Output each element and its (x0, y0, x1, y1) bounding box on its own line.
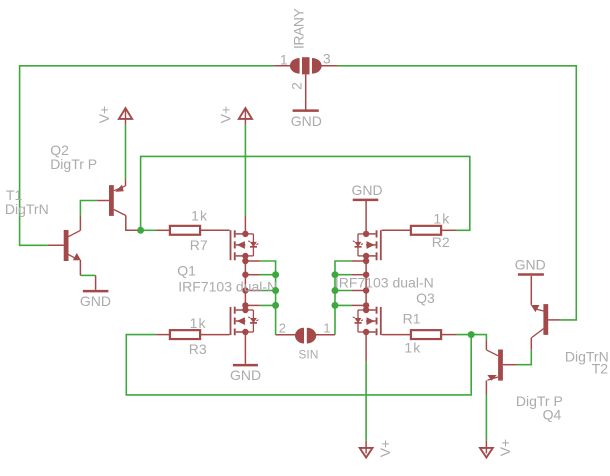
svg-text:R1: R1 (403, 311, 421, 327)
Q1 pin stub y=290.5 (245, 290, 260, 292)
junction nodes on Q3 bus (332, 271, 339, 278)
svg-text:IRF7103 dual-N: IRF7103 dual-N (178, 278, 277, 294)
transistor Q4 DigTr P (486, 340, 516, 394)
svg-text:R2: R2 (432, 234, 450, 250)
Q3 source lead to V+ (365, 332, 367, 362)
svg-text:V+: V+ (377, 440, 393, 458)
wire Q3 bus link y=290.5 (335, 290, 351, 292)
svg-text:V+: V+ (497, 439, 513, 457)
svg-text:Q1: Q1 (177, 262, 196, 278)
svg-text:1: 1 (280, 52, 288, 68)
svg-text:GND: GND (515, 256, 546, 272)
transistor T1 DigTrN (48, 216, 81, 276)
wire T2 collector to Q4 base (517, 350, 532, 365)
Q3 inter-FET pin column (365, 256, 367, 310)
wire T1 collector to Q2 base (80, 201, 97, 216)
Q3 pin stub y=290.5 (351, 290, 366, 292)
wire Q1 bus link y=274.7 (260, 274, 276, 276)
wire V+ arrow to Q2 emitter (125, 125, 127, 180)
wire net IRANY-3 to T2 base (top-right loop) (338, 66, 577, 320)
svg-text:V+: V+ (217, 106, 233, 124)
wire net IRANY-1 to T1 base (top-left loop) (20, 66, 274, 246)
Q3 pin stub y=261 (351, 260, 366, 262)
svg-text:2: 2 (289, 82, 305, 90)
Q1 source lead to GND (244, 332, 246, 364)
svg-text:3: 3 (323, 51, 331, 67)
svg-text:T2: T2 (592, 361, 609, 377)
transistor Q2 DigTr P (97, 180, 138, 231)
Q1 inter-FET pin column (244, 256, 246, 310)
IRANY pin 1 lead (274, 65, 291, 67)
wire node Q1 S1/D2 bus (vertical) to SIN pin 2 (260, 261, 276, 335)
mosfet Q1 lower N-channel FET (231, 307, 259, 336)
svg-text:GND: GND (291, 113, 322, 129)
V+ supply symbol above Q2 (119, 108, 132, 119)
Q3 pin junction dots (363, 231, 369, 237)
svg-text:2: 2 (279, 321, 286, 336)
svg-text:DigTr P: DigTr P (50, 156, 97, 172)
svg-text:R3: R3 (189, 341, 207, 357)
Q1 pin stub y=305.4 (245, 304, 260, 306)
svg-text:V+: V+ (96, 106, 112, 124)
Q3 pin stub y=305.4 (351, 304, 366, 306)
wire Q1 bus link y=305.4 (260, 304, 276, 306)
V+ supply symbol above Q1 (239, 108, 252, 119)
svg-text:SIN: SIN (298, 347, 318, 361)
mosfet Q1 upper N-channel FET (231, 230, 259, 260)
V+ supply symbol below Q3 (pointing down) (360, 448, 373, 458)
Q3 pin stub y=274.7 (351, 274, 366, 276)
wire Q3 bus link y=274.7 (335, 274, 351, 276)
ground symbol below Q1 (233, 364, 258, 367)
svg-text:1k: 1k (433, 210, 450, 226)
ground symbol above T2 (530, 276, 532, 291)
svg-text:Q3: Q3 (416, 290, 435, 306)
wire V+ arrow to Q1 drain (244, 125, 246, 216)
svg-text:DigTrN: DigTrN (5, 201, 49, 217)
svg-text:Q4: Q4 (543, 406, 562, 422)
wire Q3 bus link y=305.4 (335, 304, 351, 306)
resistor R1 1k (411, 330, 441, 339)
svg-text:IRANY: IRANY (290, 8, 306, 49)
wire node Q3 S1/D2 bus (vertical) to SIN pin 1 (335, 261, 351, 335)
junction nodes on Q1 bus (272, 271, 279, 278)
Q1 pin stub y=261 (245, 260, 260, 262)
svg-text:GND: GND (80, 293, 111, 309)
svg-text:1k: 1k (190, 315, 207, 331)
resistor R2 1k (411, 226, 441, 235)
svg-text:1: 1 (323, 320, 330, 335)
wire net R3/R1/Q4-base bottom loop (126, 335, 471, 395)
wire Q4 emitter to V+ (bottom) (485, 395, 487, 441)
wire Q3 source to V+ (bottom) (365, 362, 367, 441)
IRANY pin 3 lead (321, 65, 338, 67)
IRANY pin 2 lead (305, 74, 307, 109)
wire T1 emitter to GND link (80, 274, 95, 276)
ground symbol above Q3 (353, 199, 379, 202)
svg-text:1k: 1k (191, 208, 208, 224)
junction node R1/Q4 (468, 331, 475, 338)
svg-text:GND: GND (230, 367, 261, 383)
wire Q1 bus link y=290.5 (260, 290, 276, 292)
resistor R3 1k (170, 330, 200, 339)
ground symbol below T1 (95, 275, 97, 290)
Q3 drain lead to GND (365, 201, 367, 234)
svg-text:GND: GND (352, 182, 383, 198)
mosfet Q3 lower N-channel FET (353, 307, 381, 336)
connector SIN (295, 328, 316, 344)
resistor R7 1k (170, 226, 200, 235)
mosfet Q3 upper N-channel FET (353, 230, 381, 260)
ground symbol under IRANY (293, 109, 319, 112)
wire dot to R7 left pin (141, 229, 157, 231)
wire node R1 to Q4 collector (471, 335, 486, 341)
Q1 pin junction dots (242, 231, 248, 237)
transistor T2 DigTrN (531, 291, 560, 350)
SIN pin 2 lead (276, 334, 297, 336)
wire net Q2-collector / R7 / R2 (long horizontal y=157) (138, 156, 470, 230)
connector IRANY (290, 57, 322, 74)
Q1 drain lead to V+ (244, 216, 246, 234)
svg-text:1k: 1k (404, 340, 421, 356)
SIN pin 1 lead (315, 334, 335, 336)
svg-text:IRF7103 dual-N: IRF7103 dual-N (335, 274, 434, 290)
svg-text:R7: R7 (190, 237, 208, 253)
Q1 pin stub y=274.7 (245, 274, 260, 276)
V+ supply symbol below Q4 (pointing down) (480, 448, 493, 458)
junction node R7/Q2/net (137, 227, 144, 234)
